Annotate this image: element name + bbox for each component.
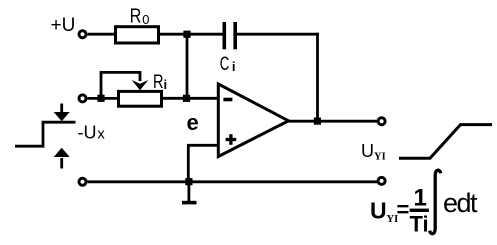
svg-text:i: i xyxy=(164,77,168,92)
svg-text:R: R xyxy=(153,72,164,93)
wire right corner down to output junction xyxy=(316,33,319,121)
ground xyxy=(182,182,197,205)
capacitor Ci xyxy=(223,22,238,49)
wire terminal to R0 xyxy=(88,33,115,36)
junction node top xyxy=(183,31,190,38)
step source -Ux xyxy=(15,104,76,169)
op-amp minus sign xyxy=(223,98,232,102)
resistor Ri xyxy=(119,91,162,106)
svg-text:-Ux: -Ux xyxy=(78,123,106,143)
bottom right terminal xyxy=(378,177,385,184)
junction node output xyxy=(314,118,321,125)
integral sign xyxy=(430,170,441,234)
wire junction down to inverting node xyxy=(186,34,189,98)
formula fraction bar xyxy=(410,209,429,212)
svg-text:C: C xyxy=(220,54,230,75)
output terminal UYI xyxy=(378,118,385,125)
wire R0 to capacitor xyxy=(160,33,223,36)
wire terminal to Ri xyxy=(88,97,118,100)
svg-text:0: 0 xyxy=(142,12,149,27)
junction node left of Ri xyxy=(97,95,104,102)
svg-text:Ti: Ti xyxy=(410,212,429,237)
ramp waveform xyxy=(399,125,492,159)
op-amp U1 xyxy=(218,84,288,157)
wire capacitor to right corner xyxy=(237,33,319,36)
svg-text:U: U xyxy=(361,141,374,161)
adjustment arrow of Ri xyxy=(101,72,148,96)
junction node bottom xyxy=(185,178,192,185)
svg-text:i: i xyxy=(232,59,236,74)
svg-text:R: R xyxy=(130,6,142,28)
svg-text:+U: +U xyxy=(51,15,76,36)
wire non-inverting input xyxy=(188,145,218,182)
bottom left terminal xyxy=(79,178,86,185)
wire Ri to op-amp inverting input xyxy=(163,97,218,100)
svg-text:1: 1 xyxy=(414,184,427,211)
terminal Ri input xyxy=(79,95,86,102)
svg-text:edt: edt xyxy=(443,188,478,218)
node +U input terminal xyxy=(79,31,86,38)
resistor R0 xyxy=(116,27,159,43)
junction node right of Ri xyxy=(183,95,190,102)
svg-text:U: U xyxy=(370,198,387,224)
svg-text:=: = xyxy=(397,197,410,222)
op-amp plus sign xyxy=(226,134,237,145)
svg-text:YI: YI xyxy=(374,152,386,163)
formula UYI = 1/Ti integral e dt xyxy=(370,184,429,236)
bottom wire xyxy=(88,180,378,183)
svg-text:e: e xyxy=(187,110,199,135)
wire op-amp output xyxy=(288,120,378,123)
